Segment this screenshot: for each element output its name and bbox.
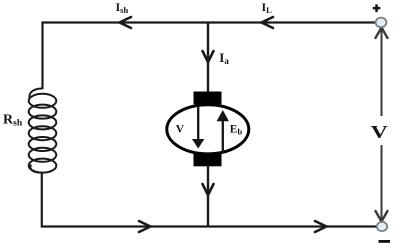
wire top horizontal [42, 21, 376, 23]
arrow bottom-right on bottom wire [315, 221, 327, 232]
motor bottom brush [194, 154, 222, 167]
arrow Ish on top wire [120, 17, 132, 28]
inductor Rsh coil [29, 89, 57, 173]
arrow V down inside motor [197, 107, 199, 141]
motor top brush [194, 92, 222, 105]
plus sign [373, 7, 381, 9]
wire middle vertical lower [207, 166, 209, 228]
svg-text:Ish: Ish [116, 0, 129, 15]
wire left vertical upper [41, 22, 43, 90]
arrow up into + terminal [376, 28, 388, 39]
wire middle vertical upper [207, 23, 209, 94]
wire left vertical lower [41, 173, 43, 228]
arrow below motor [203, 184, 214, 195]
svg-text:V: V [176, 123, 185, 135]
wire bottom horizontal [41, 225, 377, 227]
svg-text:V: V [371, 122, 389, 142]
svg-text:Ia: Ia [219, 50, 229, 66]
arrow bottom-left on bottom wire [139, 221, 151, 232]
minus sign [379, 240, 391, 243]
arrow IL on top wire [262, 17, 274, 28]
svg-text:Rsh: Rsh [3, 113, 23, 129]
terminal + (top right) [376, 18, 387, 28]
arrow down into - terminal [376, 211, 388, 222]
wire right vertical lower [381, 145, 383, 221]
arrow Eb up inside motor [222, 121, 224, 154]
terminal - (bottom right) [377, 222, 387, 231]
wire right vertical upper [381, 27, 383, 116]
motor armature ellipse [167, 105, 249, 154]
arrow Ia [203, 51, 214, 62]
svg-text:IL: IL [262, 0, 273, 15]
